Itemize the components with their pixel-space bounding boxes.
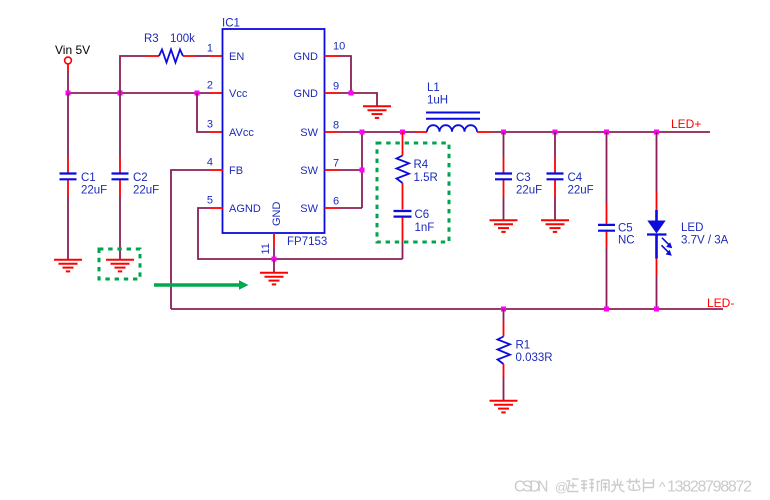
ground at pin 9: [363, 106, 391, 118]
svg-text:3: 3: [207, 119, 213, 131]
power port Vin 5V: [55, 43, 90, 71]
node junction C5 bottom: [604, 307, 609, 312]
svg-text:7: 7: [333, 158, 339, 170]
resistor R4 1.5R: [397, 156, 438, 185]
ground under C2: [106, 260, 134, 272]
pin 11 GND bottom label: [260, 202, 283, 255]
wire LED- rail: [171, 308, 723, 310]
pin 3 AVcc label: [207, 119, 254, 140]
svg-text:100k: 100k: [170, 33, 195, 45]
svg-text:9: 9: [333, 81, 339, 93]
svg-text:22uF: 22uF: [516, 185, 542, 197]
watermark hanzi glyph 2: [581, 480, 594, 493]
wire pin 7 SW: [325, 169, 363, 171]
svg-text:4: 4: [207, 157, 213, 169]
svg-text:C2: C2: [133, 172, 148, 184]
svg-text:11: 11: [260, 243, 272, 254]
node junction LED bottom: [654, 307, 659, 312]
svg-text:FP7153: FP7153: [287, 236, 327, 248]
watermark hanzi glyph 6: [644, 479, 654, 493]
wire C1 column: [67, 93, 69, 260]
svg-text:LED: LED: [681, 222, 703, 234]
svg-text:R4: R4: [414, 159, 429, 171]
wire LED column top: [656, 132, 658, 210]
wire R4 to C6: [402, 183, 404, 210]
wire C5 column: [606, 132, 608, 309]
svg-text:GND: GND: [271, 202, 283, 227]
pin 8 SW label: [300, 120, 339, 140]
pin 2 Vcc label: [207, 80, 248, 101]
pin 10 GND label: [294, 41, 346, 64]
pin 6 SW label: [300, 196, 339, 216]
svg-text:R3: R3: [144, 33, 159, 45]
wire C3 column: [503, 132, 505, 220]
svg-text:6: 6: [333, 196, 339, 208]
svg-text:1: 1: [207, 43, 213, 55]
svg-text:FB: FB: [229, 165, 243, 177]
watermark hanzi glyph 3: [597, 480, 610, 492]
ground under R1: [490, 401, 518, 413]
node junction pin10-pin9: [349, 91, 354, 96]
svg-text:C1: C1: [81, 172, 96, 184]
node junction bus-C2: [118, 91, 123, 96]
inductor L1 1uH: [426, 82, 480, 132]
wire pin 9 GND to ground: [325, 93, 378, 106]
svg-text:LED+: LED+: [671, 117, 701, 131]
svg-text:SW: SW: [300, 203, 318, 215]
svg-text:22uF: 22uF: [568, 185, 594, 197]
wire C4 column: [554, 132, 556, 220]
resistor R3 100k: [144, 33, 195, 63]
svg-text:C4: C4: [568, 172, 583, 184]
green arrow annotation: [154, 280, 249, 289]
svg-text:1nF: 1nF: [415, 222, 435, 234]
svg-text:8: 8: [333, 120, 339, 132]
wire LED column bottom: [656, 259, 658, 310]
svg-text:CSDN: CSDN: [514, 479, 549, 496]
svg-text:@: @: [555, 480, 568, 495]
ground under C4: [541, 220, 569, 232]
node junction C3 top: [501, 130, 506, 135]
svg-text:0.033R: 0.033R: [516, 352, 553, 364]
wire stem to ground pin11: [273, 259, 275, 273]
watermark CSDN: [514, 479, 568, 496]
capacitor C5 NC: [598, 223, 635, 247]
wire R3 branch from bus: [120, 56, 159, 93]
svg-text:5: 5: [207, 195, 213, 207]
svg-text:GND: GND: [294, 88, 319, 100]
svg-text:22uF: 22uF: [81, 185, 107, 197]
svg-text:C5: C5: [618, 223, 633, 235]
watermark hanzi glyph 5: [627, 479, 641, 491]
node junction bus-Vcc: [195, 91, 200, 96]
wire R3 to pin1: [183, 55, 223, 57]
node junction SW7: [360, 168, 365, 173]
svg-text:AGND: AGND: [229, 203, 261, 215]
svg-text:1uH: 1uH: [427, 95, 448, 107]
svg-text:22uF: 22uF: [133, 185, 159, 197]
wire R4 branch top: [402, 132, 404, 156]
capacitor C3 22uF: [495, 172, 542, 197]
svg-text:L1: L1: [427, 82, 440, 94]
wire C6 bottom to AGND rail: [402, 218, 404, 260]
capacitor C1 22uF: [60, 172, 108, 197]
wire AVcc branch: [197, 93, 223, 132]
node junction C5 top: [604, 130, 609, 135]
watermark phone number: [659, 479, 752, 496]
wire pin 6 SW: [325, 207, 363, 209]
pin 4 FB label: [207, 157, 243, 178]
node junction bus-C1: [66, 91, 71, 96]
wire Vcc bus horizontal: [68, 92, 223, 94]
watermark hanzi glyph 4: [611, 479, 625, 493]
capacitor C2 22uF: [112, 172, 160, 197]
svg-text:LED-: LED-: [707, 296, 734, 310]
resistor R1 0.033R: [498, 337, 553, 365]
wire R1 bottom to ground: [503, 364, 505, 401]
svg-text:2: 2: [207, 80, 213, 92]
pin 7 SW label: [300, 158, 339, 178]
pin 9 GND label: [294, 81, 340, 101]
pin 1 EN label: [207, 43, 244, 64]
node junction R4 top: [400, 130, 405, 135]
node junction C4 top: [553, 130, 558, 135]
svg-text:IC1: IC1: [222, 18, 240, 30]
highlight dashed box around R4 C6: [377, 143, 449, 242]
wire SW vertical bus: [361, 132, 363, 208]
svg-text:AVcc: AVcc: [229, 127, 254, 139]
op-amp U1 : IC body FP7153: [222, 18, 327, 249]
node junction SW8: [360, 130, 365, 135]
node junction LED top: [654, 130, 659, 135]
svg-text:C3: C3: [516, 172, 531, 184]
svg-text:^: ^: [659, 479, 666, 495]
svg-text:SW: SW: [300, 127, 318, 139]
wire pin 11 stub: [273, 233, 275, 259]
svg-text:C6: C6: [415, 209, 430, 221]
svg-text:NC: NC: [618, 235, 635, 247]
svg-text:13828798872: 13828798872: [667, 479, 752, 496]
svg-text:1.5R: 1.5R: [414, 172, 438, 184]
wire L1 to LED+ rail: [477, 131, 710, 133]
node junction pin11-AGND rail: [272, 257, 277, 262]
svg-text:R1: R1: [516, 340, 531, 352]
ground under C3: [490, 220, 518, 232]
capacitor C6 1nF: [394, 209, 435, 234]
node junction R1 top: [501, 307, 506, 312]
wire C2 column: [119, 93, 121, 260]
svg-text:Vin 5V: Vin 5V: [55, 43, 90, 57]
LED D1 3.7V 3A: [647, 210, 729, 259]
svg-text:GND: GND: [294, 51, 319, 63]
pin 5 AGND label: [207, 195, 261, 216]
wire pin 10 GND: [325, 56, 352, 93]
ground under C1: [54, 260, 82, 272]
wire pin4 FB to LED- rail: [171, 170, 223, 309]
wire pin 8 SW to L1: [325, 131, 428, 133]
svg-text:EN: EN: [229, 51, 244, 63]
wire R1 top: [503, 309, 505, 337]
watermark hanzi glyph 1: [567, 479, 579, 492]
ground at pin 11: [260, 273, 288, 285]
svg-text:SW: SW: [300, 165, 318, 177]
highlight dashed box at C2 ground: [99, 249, 140, 279]
svg-text:10: 10: [333, 41, 345, 53]
capacitor C4 22uF: [547, 172, 594, 197]
svg-text:Vcc: Vcc: [229, 88, 248, 100]
wire pin5 AGND rail: [198, 208, 403, 259]
svg-text:3.7V / 3A: 3.7V / 3A: [681, 235, 729, 247]
wire Vin vertical to bus: [67, 71, 69, 93]
